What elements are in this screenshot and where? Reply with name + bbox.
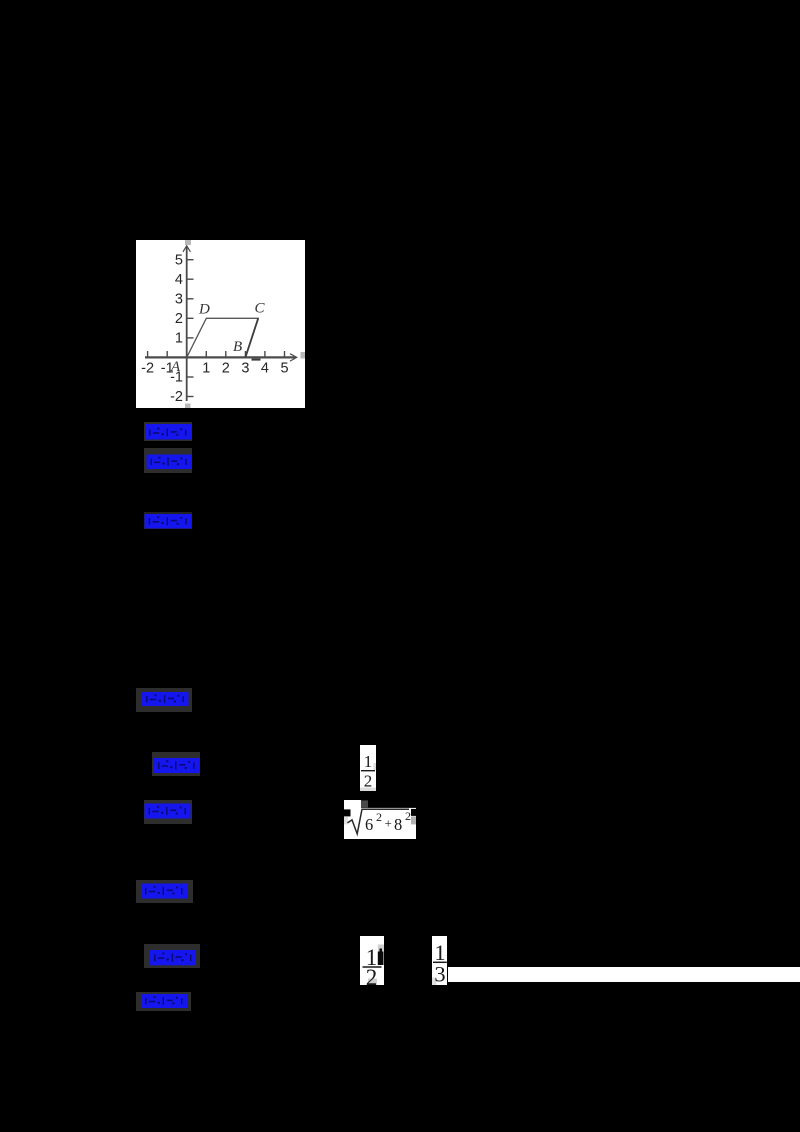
svg-text:3: 3 xyxy=(434,961,445,984)
svg-text:2: 2 xyxy=(174,311,182,327)
svg-text:5: 5 xyxy=(280,360,288,376)
svg-text:2: 2 xyxy=(221,360,229,376)
svg-text:2: 2 xyxy=(366,964,378,984)
bottom selection handle xyxy=(185,403,191,408)
y-axis xyxy=(185,246,187,401)
svg-text:-2: -2 xyxy=(170,389,183,405)
white highlight strip to right edge xyxy=(448,967,800,982)
blue label 5 xyxy=(152,752,200,776)
svg-text:2: 2 xyxy=(376,809,382,823)
svg-text:4: 4 xyxy=(260,360,268,376)
blue label 7 xyxy=(136,880,193,903)
svg-text:+: + xyxy=(385,815,392,830)
svg-text:3: 3 xyxy=(174,291,182,307)
svg-text:-2: -2 xyxy=(141,360,154,376)
x-axis xyxy=(145,356,296,358)
svg-text:6: 6 xyxy=(365,814,373,833)
blue label 2 xyxy=(144,448,193,473)
parallelogram A(0,0) D(1,2) C(3.65,2) B(3,0) xyxy=(186,318,258,357)
svg-text:2: 2 xyxy=(364,771,373,790)
blue label 1 xyxy=(144,422,192,441)
graph image: coordinate plane with parallelogram ABCD xyxy=(136,240,305,408)
formula image: fraction 1/3 xyxy=(432,936,448,985)
svg-text:1: 1 xyxy=(364,752,373,771)
x axis number labels xyxy=(141,360,288,376)
svg-text:3: 3 xyxy=(241,360,249,376)
blue label 6 xyxy=(144,800,193,825)
svg-text:1: 1 xyxy=(202,360,210,376)
blue label 3 xyxy=(144,512,192,530)
blue label 4 xyxy=(136,688,192,712)
formula image: fraction 1/2 (first) xyxy=(360,745,376,792)
y ticks xyxy=(187,259,194,396)
svg-text:5: 5 xyxy=(174,252,182,268)
formula image: fraction 1/2 (second) xyxy=(360,936,384,985)
svg-text:B: B xyxy=(233,339,242,355)
x ticks xyxy=(147,351,284,357)
formula image: sqrt(6^2+8^2) xyxy=(344,800,416,840)
svg-text:2: 2 xyxy=(405,809,411,823)
blue label 9 xyxy=(136,992,191,1011)
svg-text:1: 1 xyxy=(174,330,182,346)
y axis number labels xyxy=(170,252,183,405)
svg-text:A: A xyxy=(170,359,181,375)
top selection handle xyxy=(185,240,191,245)
svg-text:C: C xyxy=(254,300,265,316)
short dash on axis below C xyxy=(251,358,260,360)
vertex labels xyxy=(170,300,266,375)
blue label 8 xyxy=(144,944,200,968)
svg-text:4: 4 xyxy=(174,272,182,288)
svg-text:D: D xyxy=(198,301,210,317)
right selection handle xyxy=(300,352,305,359)
svg-text:8: 8 xyxy=(394,814,402,833)
